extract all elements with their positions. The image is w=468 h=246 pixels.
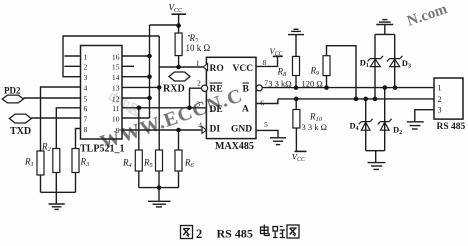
node pin12 junction bbox=[147, 96, 152, 101]
svg-text:2: 2 bbox=[196, 227, 202, 241]
svg-text:120 Ω: 120 Ω bbox=[302, 79, 323, 89]
resistor R10 bbox=[293, 110, 300, 129]
wire R3 bottom bbox=[75, 173, 77, 193]
diode D1 bbox=[368, 56, 383, 67]
wire pin8 to R3 bbox=[76, 129, 81, 149]
diode D2 bbox=[378, 119, 392, 130]
wire R6 bottom bbox=[178, 171, 180, 188]
svg-text:RO: RO bbox=[210, 64, 224, 74]
U2 internal pin names bbox=[210, 64, 254, 135]
U2 pin7 B bubble bbox=[256, 85, 262, 91]
svg-text:3 3 kΩ: 3 3 kΩ bbox=[268, 78, 291, 88]
svg-text:3: 3 bbox=[196, 100, 200, 109]
wire B row bbox=[262, 87, 434, 89]
wire pin12 stub bbox=[122, 97, 150, 99]
wire RO net vertical bbox=[158, 36, 160, 150]
wire RO row bbox=[159, 66, 203, 68]
wire pin3 loop to RO net bbox=[63, 36, 159, 77]
ground G2 under R5 bbox=[148, 201, 171, 207]
svg-text:13: 13 bbox=[112, 83, 120, 92]
wire pin13 stub bbox=[122, 86, 159, 88]
wire pin14 stub bbox=[122, 76, 150, 78]
U1 pin numbers left 1-8 bbox=[84, 52, 88, 134]
wire TXD to pin7 bbox=[31, 117, 80, 119]
svg-text:8: 8 bbox=[84, 125, 88, 134]
svg-text:10 k Ω: 10 k Ω bbox=[186, 43, 211, 53]
svg-text:3: 3 bbox=[438, 106, 442, 115]
svg-text:4: 4 bbox=[84, 83, 88, 92]
wire pin15 stub bbox=[122, 65, 134, 67]
overline RE bbox=[210, 82, 223, 84]
ground G6 under D4 D2 bbox=[368, 163, 386, 170]
label R7 bbox=[188, 35, 190, 37]
node R10-A junction bbox=[294, 97, 299, 102]
resistor R6 bbox=[175, 150, 182, 171]
svg-text:1: 1 bbox=[84, 52, 88, 61]
diode D3 bbox=[387, 56, 402, 67]
wire MAX485 pin6 jog bbox=[256, 99, 278, 104]
tag TXD bbox=[9, 114, 31, 137]
wire pin2 stub bbox=[64, 65, 80, 67]
svg-text:14: 14 bbox=[112, 73, 120, 82]
node D1-A junction bbox=[373, 97, 378, 102]
wire R10 bottom to Vcc3 bbox=[295, 128, 297, 151]
wire line A to Vcc1 bbox=[150, 24, 179, 26]
U2 pin2 RE bubble bbox=[202, 85, 208, 91]
svg-text:7: 7 bbox=[84, 114, 88, 123]
node RE-DE junction bbox=[187, 106, 192, 111]
wire pin4 to R1 bbox=[41, 87, 81, 151]
node D4-A junction bbox=[363, 97, 368, 102]
svg-text:5: 5 bbox=[264, 120, 268, 129]
node R7-RO junction bbox=[176, 65, 181, 70]
node pin16 junction bbox=[147, 54, 152, 59]
wire A row bbox=[278, 98, 434, 100]
wire R7 to RO row bbox=[178, 56, 180, 67]
resistor R2 bbox=[53, 149, 60, 173]
wire R4 bottom bbox=[138, 171, 140, 188]
wire D1 to A row bbox=[374, 34, 376, 99]
resistor R1 bbox=[37, 151, 44, 175]
ground G7 RS485 pin3 bbox=[407, 122, 424, 129]
U1 pin numbers right 16-9 bbox=[112, 52, 120, 135]
U2 external pin numbers bbox=[196, 58, 268, 129]
node D2-B junction bbox=[383, 85, 388, 90]
wire R9 bottom to B bbox=[326, 76, 328, 88]
U2 pin4 DI arrow bbox=[202, 127, 206, 134]
wire MAX485 pin5 to ground bbox=[256, 130, 278, 137]
node middle bus junction bbox=[157, 185, 162, 190]
wire PD2 to pin5 bbox=[24, 97, 81, 99]
wire D3 to B row bbox=[394, 34, 396, 87]
svg-text:B: B bbox=[243, 85, 250, 95]
node R9-B junction bbox=[324, 85, 329, 90]
wire R9 top loop to A bbox=[327, 46, 357, 99]
svg-text:TXD: TXD bbox=[10, 126, 31, 137]
node R9loop-A junction bbox=[354, 97, 359, 102]
wire pin10 row bbox=[122, 117, 150, 119]
wire R1 bottom bbox=[40, 175, 42, 192]
svg-text:MAX485: MAX485 bbox=[215, 141, 254, 152]
svg-text:GND: GND bbox=[231, 125, 252, 135]
resistor R9 bbox=[323, 56, 330, 76]
wire flipped ground stem bbox=[384, 25, 386, 35]
svg-text:1: 1 bbox=[196, 59, 200, 68]
ground G4 flipped above R8 bbox=[288, 29, 304, 34]
wire R10 top to A bbox=[295, 99, 297, 110]
connector J1 RS485 box bbox=[434, 78, 463, 119]
ground G5 flipped above D1 D3 bbox=[376, 20, 393, 25]
wire RS485 pin3 to ground bbox=[415, 110, 434, 122]
svg-text:A: A bbox=[242, 105, 249, 115]
wire D4 to A row bbox=[365, 99, 367, 151]
node D3-B junction bbox=[393, 85, 398, 90]
resistor R3 bbox=[72, 149, 79, 173]
svg-text:RXD: RXD bbox=[163, 84, 185, 95]
IC U2 MAX485 box bbox=[206, 57, 256, 138]
wire DE row pin11 to DE bbox=[122, 107, 206, 109]
svg-text:DI: DI bbox=[210, 125, 221, 135]
svg-text:8: 8 bbox=[263, 58, 267, 67]
wire D2 to B row bbox=[384, 88, 386, 151]
svg-text:5: 5 bbox=[84, 94, 88, 103]
wire bracket to D1 D3 bbox=[375, 33, 395, 35]
node R4-DE junction bbox=[137, 106, 142, 111]
diode D4 bbox=[359, 119, 373, 130]
svg-text:2: 2 bbox=[197, 79, 201, 88]
svg-text:PD2: PD2 bbox=[4, 86, 21, 96]
wire R4 stem bbox=[138, 108, 140, 150]
node pin13-RO junction bbox=[157, 85, 162, 90]
wire RE jog bbox=[190, 88, 202, 108]
svg-text:2: 2 bbox=[438, 95, 442, 104]
wire ground bus middle bbox=[139, 187, 179, 189]
svg-text:9: 9 bbox=[116, 126, 120, 135]
resistor R5 bbox=[156, 150, 163, 171]
svg-text:3 3 k Ω: 3 3 k Ω bbox=[302, 122, 327, 132]
svg-text:3: 3 bbox=[84, 73, 88, 82]
wire Vcc rail vertical (line A) bbox=[149, 25, 151, 118]
node pin14 junction bbox=[147, 74, 152, 79]
wire DI row pin9 to DI bbox=[122, 129, 202, 131]
wire pin1 stub bbox=[64, 55, 80, 57]
wire MAX485 pin8 to Vcc2 bbox=[256, 56, 278, 66]
node R8-B junction bbox=[294, 85, 299, 90]
tag PD2 bbox=[2, 86, 23, 103]
svg-text:6: 6 bbox=[260, 99, 264, 108]
node R6-DI junction bbox=[176, 128, 181, 133]
wire pin6 to R2 bbox=[56, 108, 80, 149]
wire diode ground bus bbox=[366, 150, 385, 152]
svg-text:11: 11 bbox=[112, 104, 120, 113]
power Vcc2 MAX485 pin8 bbox=[270, 46, 283, 58]
power Vcc1 top bbox=[169, 3, 187, 15]
optocoupler U1 TLP521_1 box bbox=[81, 46, 123, 140]
svg-text:RS 485: RS 485 bbox=[217, 227, 253, 241]
resistor R7 bbox=[175, 33, 182, 56]
node Vcc1 junction bbox=[176, 23, 181, 28]
watermark bbox=[97, 1, 449, 154]
svg-text:16: 16 bbox=[112, 52, 120, 61]
all wires bbox=[24, 14, 435, 203]
svg-text:2: 2 bbox=[84, 63, 88, 72]
wire R6 stem bbox=[178, 130, 180, 150]
svg-text:15: 15 bbox=[112, 63, 120, 72]
power Vcc3 below R10 bbox=[292, 151, 307, 163]
tag RXD bbox=[163, 72, 190, 95]
J1 pin numbers bbox=[438, 84, 442, 115]
ground G3 MAX485 pin5 bbox=[270, 138, 286, 145]
wire R8 top to flipped ground bbox=[295, 35, 297, 57]
wire diode ground stem bbox=[375, 151, 377, 162]
svg-text:DE: DE bbox=[210, 105, 223, 115]
wire Vcc1 to R7 bbox=[178, 14, 180, 33]
ground G1 under R2 bbox=[49, 204, 65, 209]
wire pin16 stub bbox=[122, 55, 150, 57]
svg-text:10: 10 bbox=[112, 114, 120, 123]
overline B bbox=[243, 82, 250, 84]
wire R8 bottom to B bbox=[295, 76, 297, 88]
svg-text:RE: RE bbox=[210, 85, 223, 95]
wire R5 bottom to ground bbox=[158, 171, 160, 201]
svg-text:4: 4 bbox=[198, 120, 202, 129]
svg-text:RS 485: RS 485 bbox=[437, 122, 466, 132]
svg-text:6: 6 bbox=[84, 104, 88, 113]
wire ground bus left bbox=[41, 191, 76, 193]
svg-text:12: 12 bbox=[112, 94, 120, 103]
resistor R4 bbox=[135, 150, 142, 171]
U2 pin1 RO arrow bbox=[203, 64, 207, 71]
wire R2 bottom to ground bbox=[55, 173, 57, 204]
svg-text:VCC: VCC bbox=[233, 64, 254, 74]
svg-text:1: 1 bbox=[438, 84, 442, 93]
svg-text:TLP521_1: TLP521_1 bbox=[80, 144, 124, 155]
resistor R8 bbox=[293, 56, 300, 75]
caption: 图 2 RS 485 电路图 bbox=[181, 225, 300, 242]
